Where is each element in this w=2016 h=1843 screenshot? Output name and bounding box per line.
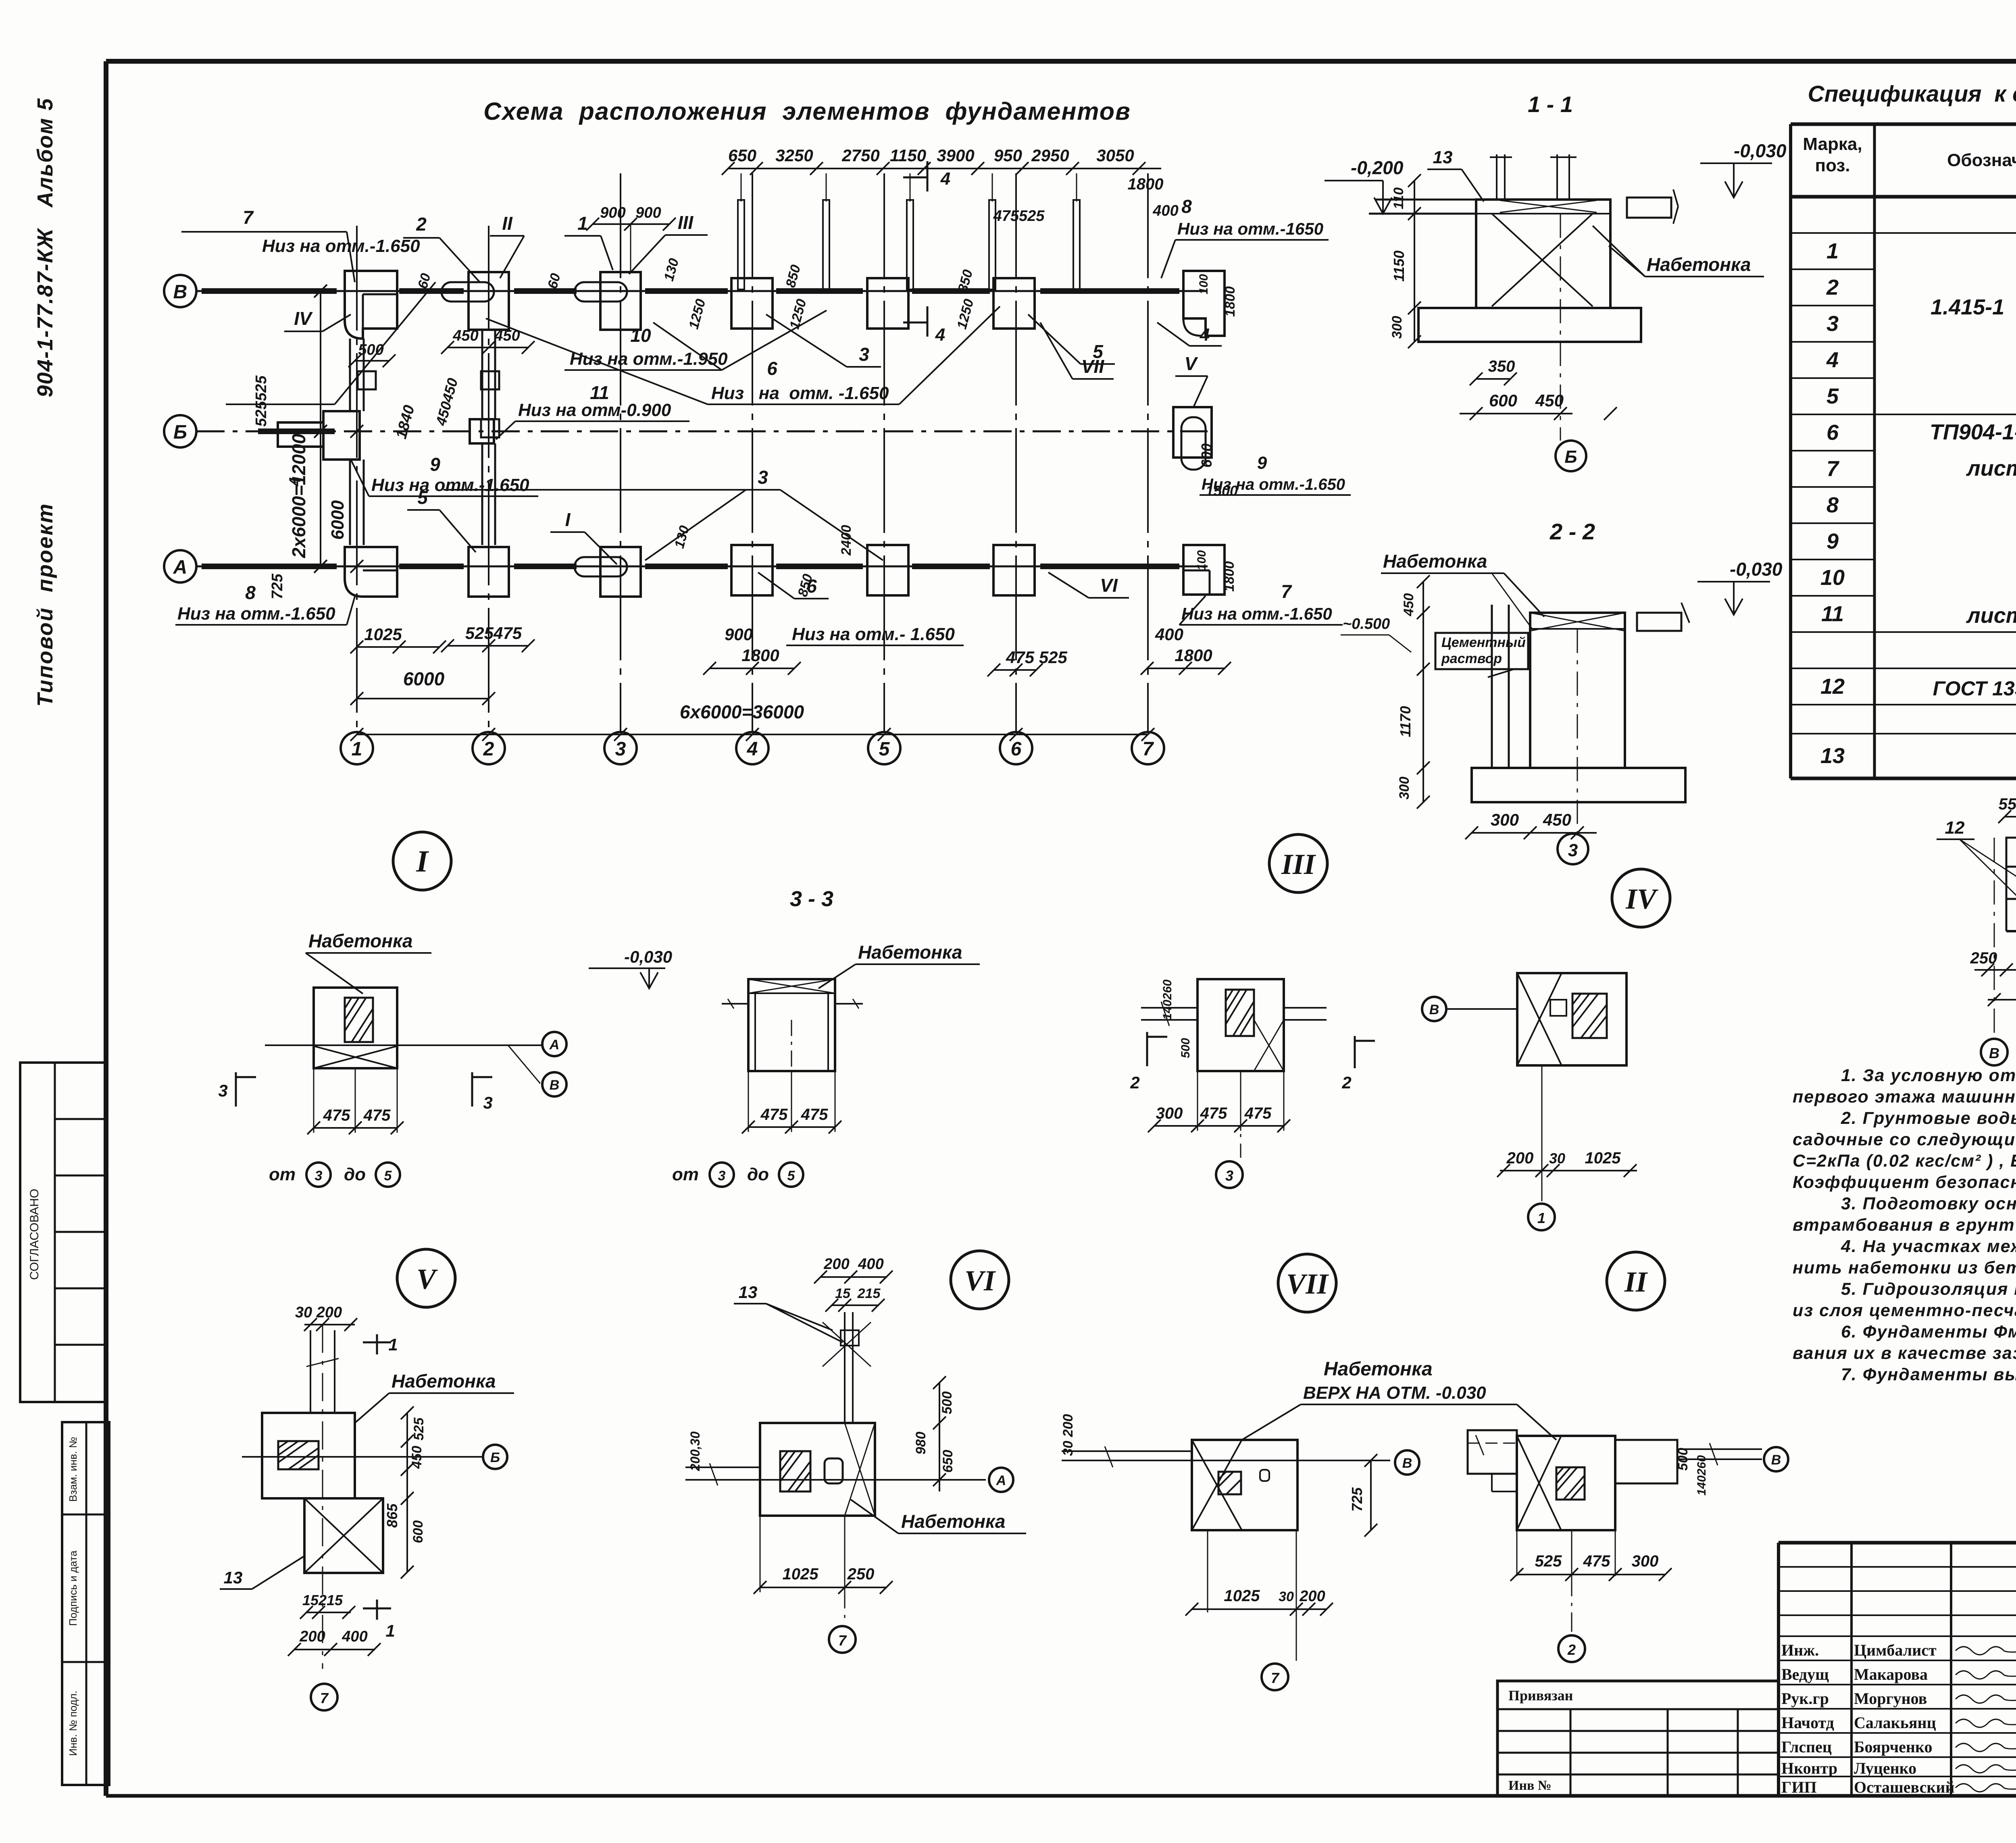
svg-text:450: 450 [1543,810,1571,829]
svg-text:850: 850 [783,263,804,289]
svg-text:1150: 1150 [1391,250,1407,281]
svg-text:9: 9 [430,454,440,475]
svg-text:Набетонка: Набетонка [858,942,962,963]
svg-text:3: 3 [1225,1167,1233,1184]
foundation pad axis Б column 2 small [470,419,494,443]
svg-text:6: 6 [1011,738,1022,760]
svg-text:от: от [672,1165,699,1184]
svg-text:3: 3 [315,1168,323,1184]
vertical beam outlines column 1 between Б and А [349,460,351,545]
svg-text:Низ на отм.-1.650: Низ на отм.-1.650 [262,236,420,256]
svg-text:2. Грунтовые воды отсутств: 2. Грунтовые воды отсутствуют. Грунты не… [1841,1109,2016,1128]
svg-text:Макарова: Макарова [1854,1665,1928,1683]
detail VI pad [760,1423,875,1516]
svg-text:В: В [1989,1045,1999,1061]
svg-text:1: 1 [577,213,588,234]
svg-text:Низ на отм.-1.650: Низ на отм.-1.650 [371,475,529,495]
svg-text:-0,030: -0,030 [624,947,672,966]
detail VI circle [951,1251,1009,1309]
column circle 1 [341,732,373,764]
inventory stamp box [62,1422,109,1785]
detail III section marks 2 [1146,1032,1148,1066]
detail III drawing [1198,979,1284,1071]
svg-text:2: 2 [483,738,494,760]
svg-text:900: 900 [600,204,625,221]
svg-text:Спецификация к схеме распол: Спецификация к схеме расположения элемен… [1808,81,2016,107]
foundation pad axis А column 7 (corner, pos.7) [1183,545,1225,595]
svg-text:475: 475 [760,1106,788,1123]
svg-text:В: В [1429,1002,1439,1017]
privyazan box [1497,1681,1779,1796]
svg-text:300: 300 [1491,810,1519,829]
svg-text:А: А [549,1037,560,1053]
svg-text:6: 6 [1826,420,1839,445]
svg-text:IV: IV [1625,883,1658,915]
svg-text:450: 450 [1401,593,1416,617]
svg-text:Б: Б [173,422,187,443]
foundation beams on axis А [202,564,337,569]
svg-text:Набетонка: Набетонка [1647,254,1751,275]
svg-text:400: 400 [1155,625,1183,644]
specification table [1789,124,1792,778]
signature of Луценко [1956,1765,2016,1773]
svg-text:Инв. № подл.: Инв. № подл. [67,1691,79,1756]
signature of Осташевский [1956,1784,2016,1792]
axis circle Б [164,415,196,447]
svg-text:А: А [996,1473,1006,1488]
column line 5 [883,173,885,732]
svg-text:500: 500 [1179,1038,1192,1058]
svg-text:поз.: поз. [1815,156,1850,175]
svg-text:Низ на отм.-1.650: Низ на отм.-1.650 [1202,476,1345,493]
column circle 3 [604,732,637,764]
detail II bottom dims [1516,1530,1518,1576]
svg-text:от: от [269,1165,296,1184]
svg-text:В: В [1402,1456,1412,1471]
foundation pad axis В column 7 (corner, pos.7) [1183,271,1225,336]
left dimension line 2x6000=12000 [320,291,321,566]
detail I circle [393,832,451,890]
svg-text:350: 350 [1488,358,1515,375]
detail IV axis В circle [1422,997,1446,1021]
svg-text:Набетонка: Набетонка [392,1371,496,1392]
section 1-1 anchor bolts [1496,154,1497,200]
svg-text:5: 5 [384,1168,392,1184]
svg-text:8: 8 [1181,196,1192,217]
svg-text:525525: 525525 [253,375,270,427]
svg-text:900: 900 [635,204,661,221]
svg-text:1800: 1800 [1222,561,1237,592]
svg-text:VII: VII [1286,1268,1329,1300]
svg-text:450: 450 [452,327,478,344]
svg-text:из слоя цементно-песчаного: из слоя цементно-песчаного раствора сост… [1793,1301,2016,1320]
svg-text:Салакьянц: Салакьянц [1854,1714,1936,1732]
svg-text:525: 525 [1535,1552,1562,1570]
column line 3 [620,173,621,732]
svg-text:ВЕРХ НА ОТМ. -0.030: ВЕРХ НА ОТМ. -0.030 [1303,1383,1486,1403]
svg-text:5: 5 [417,487,428,508]
column line 6 [1015,173,1017,732]
svg-text:475525: 475525 [993,208,1045,225]
svg-text:100: 100 [1195,550,1208,570]
svg-text:400: 400 [1152,202,1178,219]
svg-text:Ведущ: Ведущ [1781,1665,1829,1683]
svg-text:Низ на отм.- 1.650: Низ на отм.- 1.650 [792,624,955,644]
svg-text:3: 3 [758,467,768,488]
svg-text:865: 865 [384,1503,400,1528]
svg-text:Низ на отм.-1.650: Низ на отм.-1.650 [1181,604,1332,623]
thin foundation beam above axis В #3 [907,200,913,289]
svg-text:3: 3 [483,1093,492,1112]
svg-text:А: А [173,557,187,578]
detail VI right dims [939,1383,940,1491]
svg-text:4: 4 [1200,325,1210,345]
svg-text:475: 475 [801,1106,828,1123]
svg-text:3. Подготовку основания по: 3. Подготовку основания под фундаменты в… [1841,1194,2016,1213]
svg-text:900: 900 [725,625,753,644]
detail V right dims [406,1413,408,1572]
vertical beam outlines column 2 between В and Б [481,331,483,419]
svg-text:6: 6 [767,358,777,379]
long leader slants [335,282,435,404]
plan: axis line Б [196,431,1208,433]
svg-text:1800: 1800 [1175,646,1212,665]
svg-text:1.415-1 вып.1: 1.415-1 вып.1 [1931,295,2016,319]
svg-text:215: 215 [857,1286,881,1301]
svg-text:60: 60 [545,272,564,290]
svg-text:500: 500 [358,341,383,358]
section 4-4 axis circle В [1994,838,1995,1036]
svg-text:1025: 1025 [1585,1149,1621,1167]
svg-text:4. На участках между торцам: 4. На участках между торцами фундаментны… [1841,1237,2016,1256]
svg-text:3050: 3050 [1096,146,1134,165]
top dimension line of plan [728,168,1161,169]
svg-text:раствор: раствор [1441,651,1502,666]
svg-text:I: I [565,509,571,530]
svg-text:7: 7 [320,1690,329,1706]
svg-text:6х6000=36000: 6х6000=36000 [680,701,804,722]
svg-text:VI: VI [964,1265,996,1297]
detail V section mark 1 top [363,1342,391,1344]
detail V section mark 1 bottom [363,1608,391,1610]
svg-text:В: В [550,1078,560,1093]
svg-text:2: 2 [1130,1073,1139,1092]
svg-text:Набетонка: Набетонка [1383,551,1487,572]
svg-text:8: 8 [1826,493,1839,517]
svg-text:Набетонка: Набетонка [308,930,413,951]
detail III circle [1269,834,1327,892]
svg-text:1840: 1840 [393,404,418,441]
svg-text:до: до [747,1165,769,1184]
svg-text:475: 475 [323,1107,350,1124]
section 2-2 base slab [1472,768,1685,802]
svg-text:Типовой проект: Типовой проект [33,503,57,707]
vertical beam outlines column 1 between В and Б [349,339,351,411]
svg-text:7: 7 [243,207,254,228]
svg-text:7: 7 [1281,581,1292,602]
svg-text:Низ на отм. -1.650: Низ на отм. -1.650 [711,383,889,403]
svg-text:VI: VI [1100,575,1118,596]
svg-text:~0.500: ~0.500 [1343,616,1390,632]
detail VII bottom dims [1207,1530,1208,1612]
svg-text:2: 2 [1826,275,1839,300]
svg-text:4: 4 [940,169,950,189]
signature of Макарова [1956,1671,2016,1679]
detail VI upper bar [844,1312,846,1423]
svg-text:13: 13 [739,1283,758,1302]
svg-text:Нконтр: Нконтр [1781,1759,1837,1777]
svg-text:2х6000=12000: 2х6000=12000 [288,433,309,558]
section 2-2 column [1530,613,1625,768]
svg-text:лист 6: лист 6 [1966,603,2016,628]
svg-text:12: 12 [1820,674,1845,699]
svg-text:Инж.: Инж. [1781,1641,1819,1659]
svg-text:IV: IV [294,308,313,329]
svg-text:550: 550 [1999,795,2016,813]
svg-text:1800: 1800 [741,646,779,665]
svg-text:1250: 1250 [686,297,708,331]
svg-text:1150: 1150 [890,146,926,165]
detail VII circle [1278,1254,1336,1312]
svg-text:725: 725 [269,573,286,599]
svg-text:Инв №: Инв № [1508,1778,1552,1793]
svg-text:10: 10 [1820,566,1845,590]
svg-text:Низ на отм.-1650: Низ на отм.-1650 [1177,219,1323,238]
svg-text:1: 1 [388,1335,398,1354]
svg-text:7: 7 [1271,1670,1280,1686]
svg-text:Низ на отм-0.900: Низ на отм-0.900 [518,400,671,420]
thin foundation beam above axis В #2 [823,200,829,289]
svg-text:1 - 1: 1 - 1 [1528,92,1573,117]
svg-text:1250: 1250 [954,297,977,331]
svg-text:10: 10 [630,325,651,346]
svg-text:475 525: 475 525 [1006,648,1067,667]
svg-text:Цементный: Цементный [1441,635,1526,650]
column circle 4 [736,732,768,764]
svg-text:300: 300 [1389,316,1405,339]
svg-text:ТП904-1- -КЖ: ТП904-1- -КЖ [1930,420,2016,444]
foundation pad axis Б column 7 (pos. V detail) [1173,407,1212,458]
svg-text:450: 450 [494,327,520,344]
svg-text:втрамбования в грунт щебня: втрамбования в грунт щебня или гравия кр… [1793,1215,2016,1235]
svg-text:725: 725 [1349,1487,1365,1512]
detail VI axis А [685,1479,986,1481]
svg-text:-0,030: -0,030 [1730,559,1783,580]
section 2-2 cement mortar box [1435,633,1528,669]
signature of Моргунов [1956,1695,2016,1703]
svg-text:1: 1 [385,1621,395,1640]
svg-text:7. Фундаменты выполняются в: 7. Фундаменты выполняются в типовой опал… [1841,1365,2016,1384]
thin foundation beam above axis В #4 [989,200,996,289]
svg-text:600: 600 [410,1521,426,1543]
column circle 5 [868,732,900,764]
vertical beam outlines column 2 between Б and А [481,443,483,545]
svg-text:2750: 2750 [841,146,879,165]
svg-text:9: 9 [1826,529,1839,553]
svg-text:вания их в качестве заземл: вания их в качестве заземлителей. [1793,1344,2016,1363]
detail I axis circles А В [542,1032,566,1056]
svg-text:В: В [173,281,187,303]
svg-text:Луценко: Луценко [1854,1759,1916,1777]
svg-text:Подпись и дата: Подпись и дата [67,1550,79,1626]
column circle 2 [473,732,505,764]
column line 7 [1147,173,1149,732]
detail IV section marks 2 [1354,1036,1356,1068]
svg-text:Моргунов: Моргунов [1854,1689,1927,1708]
column line 2 [488,226,489,732]
svg-text:1. За условную отметку 0.000: 1. За условную отметку 0.000 принят уров… [1841,1066,2016,1085]
section 2-2 right stub [1637,613,1681,631]
signature of Цимбалист [1956,1647,2016,1655]
foundation pads axis Б near column 1 (pos.9, 11) [323,411,360,460]
svg-text:Б: Б [490,1450,500,1465]
svg-text:Осташевский: Осташевский [1854,1778,1955,1796]
svg-text:III: III [1281,848,1316,880]
detail I drawing [314,988,397,1068]
signature of Боярченко [1956,1743,2016,1751]
svg-text:130: 130 [672,524,692,550]
svg-text:2950: 2950 [1031,146,1069,165]
svg-text:1800: 1800 [1128,175,1164,193]
thin foundation beam above axis В #1 [738,200,744,289]
svg-text:12: 12 [1945,818,1965,838]
svg-text:980: 980 [913,1432,929,1455]
section 1-1 base slab [1418,308,1641,342]
detail III axis circle 3 [1240,1071,1241,1158]
column line 4 [752,173,753,732]
svg-text:3: 3 [859,344,869,365]
svg-text:Начотд: Начотд [1781,1714,1834,1732]
svg-text:Набетонка: Набетонка [1324,1358,1433,1380]
svg-text:1: 1 [1537,1210,1545,1226]
svg-text:7: 7 [1826,457,1840,481]
svg-text:первого этажа машинного зал: первого этажа машинного зала [1793,1087,2016,1107]
svg-text:650: 650 [940,1450,956,1473]
section 1-1 body [1375,199,1476,201]
svg-text:Низ на отм.-1.650: Низ на отм.-1.650 [177,604,335,624]
detail V circle [397,1249,455,1307]
svg-text:250: 250 [847,1565,875,1583]
svg-text:30 200: 30 200 [295,1304,342,1321]
svg-text:V: V [1185,353,1198,374]
svg-text:3: 3 [1826,312,1839,336]
plan: axis line А [196,566,1208,568]
svg-text:Б: Б [1564,447,1577,467]
detail VII dim 725 [1370,1460,1372,1530]
axis circle В [164,275,196,307]
svg-text:2: 2 [416,214,427,235]
axis circle А [164,550,196,582]
section 1-1 axis circle Б [1560,214,1561,441]
foundation pad axis В column 5 [867,278,908,329]
plan: axis line B (letter V) [196,290,1208,292]
svg-text:13: 13 [1820,744,1845,768]
detail I section marks 3 [235,1072,237,1107]
svg-text:200: 200 [1299,1588,1325,1605]
column circle 7 [1132,732,1164,764]
detail II right beam [1615,1440,1677,1483]
svg-text:500: 500 [939,1392,955,1414]
section 2-2 axis circle 3 [1577,629,1578,834]
svg-text:4: 4 [935,325,945,345]
svg-text:5: 5 [1093,341,1104,362]
svg-text:3900: 3900 [937,146,974,165]
beam splice stadium axis В span1-2 [442,282,494,302]
section 1-1 left dims [1414,181,1415,342]
svg-text:нить набетонки из бетона к: нить набетонки из бетона класса В10, рас… [1793,1258,2016,1277]
svg-text:300: 300 [1632,1552,1659,1570]
svg-text:200: 200 [1506,1149,1534,1167]
foundation pad axis А column 5 [867,545,908,595]
svg-text:I: I [416,845,429,878]
signature of Салакьянц [1956,1719,2016,1727]
section 3-3 drawing [748,979,835,1071]
svg-text:7: 7 [1143,738,1154,760]
svg-text:Боярченко: Боярченко [1854,1738,1932,1756]
svg-text:ГИП: ГИП [1781,1778,1817,1796]
svg-text:475: 475 [1244,1105,1272,1122]
svg-text:200,30: 200,30 [688,1431,702,1471]
detail IV circle [1612,869,1670,927]
svg-text:1250: 1250 [787,297,809,331]
svg-text:100: 100 [1197,274,1210,294]
sheet outer frame [106,59,2016,64]
svg-text:1025: 1025 [1224,1587,1260,1605]
svg-text:6000: 6000 [328,500,348,540]
svg-text:Марка,: Марка, [1803,134,1862,154]
foundation beam on axis Б left [258,429,335,434]
svg-text:II: II [1624,1266,1648,1298]
svg-text:110: 110 [1391,187,1406,209]
svg-text:200: 200 [299,1628,325,1645]
svg-text:Рук.гр: Рук.гр [1781,1689,1829,1708]
svg-text:475: 475 [1583,1552,1610,1570]
svg-text:6. Фундаменты Фм1-Фм5 разраб: 6. Фундаменты Фм1-Фм5 разработаны с учет… [1841,1322,2016,1342]
svg-text:6000: 6000 [403,668,445,689]
foundation pad axis А column 1 (corner, pos.8) [345,547,397,597]
svg-text:1025: 1025 [364,625,402,644]
foundation pad axis В column 4 [731,278,773,329]
svg-text:400: 400 [342,1628,367,1645]
foundation pad axis А column 6 [993,545,1035,595]
foundation pad axis В column 3 (pos.10) [600,272,641,330]
section 2-2 left dims [1422,582,1424,802]
svg-text:950: 950 [994,146,1022,165]
foundation pad Фм, axis В column 1 (corner, pos.8) [345,271,397,339]
svg-text:3 - 3: 3 - 3 [790,887,833,911]
svg-text:300: 300 [1397,777,1412,800]
svg-text:4: 4 [747,738,758,760]
svg-text:904-1-77.87-КЖ Альбом 5: 904-1-77.87-КЖ Альбом 5 [33,98,57,397]
svg-text:1: 1 [352,738,362,760]
svg-text:V: V [417,1263,438,1295]
detail II circle [1607,1252,1665,1310]
svg-text:3: 3 [218,1081,227,1100]
svg-text:7: 7 [838,1632,847,1649]
svg-text:5: 5 [1826,384,1839,408]
svg-text:8: 8 [245,582,256,603]
svg-text:Цимбалист: Цимбалист [1854,1641,1937,1659]
svg-text:2: 2 [1567,1641,1576,1658]
svg-text:13: 13 [224,1568,243,1587]
thin foundation beam above axis В #5 [1073,200,1080,289]
svg-text:Набетонка: Набетонка [901,1511,1006,1532]
detail V pad [262,1413,355,1498]
approval stamp box (soglasovano) [20,1063,106,1402]
svg-text:475: 475 [363,1107,391,1124]
foundation pad axis А column 2 [469,547,509,597]
foundation pad axis В column 2 [469,272,509,330]
